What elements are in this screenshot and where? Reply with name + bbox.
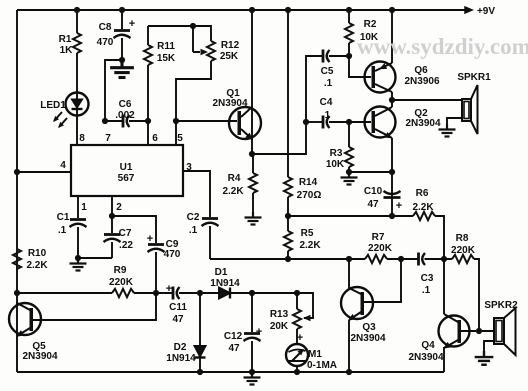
resistor R11	[144, 26, 152, 121]
svg-text:2.2K: 2.2K	[222, 186, 244, 197]
svg-text:C3: C3	[421, 273, 434, 284]
resistor R7	[365, 255, 387, 263]
junction D1 D2 node	[197, 290, 203, 296]
svg-text:567: 567	[118, 173, 135, 184]
wire to Q2 base	[349, 121, 371, 123]
svg-text:270Ω: 270Ω	[297, 190, 322, 201]
svg-text:SPKR1: SPKR1	[457, 72, 491, 83]
svg-text:R7: R7	[372, 232, 385, 243]
junction R14 rail	[285, 7, 291, 13]
svg-text:220K: 220K	[451, 245, 476, 256]
svg-text:.1: .1	[189, 225, 198, 236]
wire speaker1 feed	[392, 99, 462, 101]
svg-text:2: 2	[116, 202, 122, 213]
capacitor C3	[419, 253, 426, 266]
ground under R3	[341, 172, 358, 185]
ground under C12	[244, 372, 261, 385]
svg-text:LED1: LED1	[40, 100, 66, 111]
svg-text:+: +	[256, 326, 262, 338]
wire pin4	[17, 171, 71, 173]
speaker SPKR2	[494, 308, 516, 355]
wire pin2 to C9	[112, 216, 156, 243]
transistor Q3	[341, 287, 373, 323]
capacitor C5	[323, 50, 349, 63]
svg-text:Q3: Q3	[362, 322, 376, 333]
junction C12 rail	[249, 369, 255, 375]
wire Q3 emitter to rail	[348, 320, 350, 372]
capacitor C12	[244, 293, 261, 372]
svg-text:.1: .1	[324, 78, 333, 89]
svg-text:470: 470	[164, 249, 181, 260]
diode D2	[195, 293, 206, 372]
IC U1 567	[71, 145, 183, 196]
svg-text:C6: C6	[119, 99, 132, 110]
potentiometer R12	[176, 26, 215, 121]
wire Q6 emitter to rail	[391, 10, 393, 63]
svg-text:25K: 25K	[220, 51, 239, 62]
wire SPKR2 to ground	[484, 341, 494, 351]
capacitor C2	[202, 219, 219, 260]
svg-text:R6: R6	[416, 188, 429, 199]
wire Q4 base drop	[443, 259, 445, 314]
svg-text:R4: R4	[228, 173, 241, 184]
svg-text:C10: C10	[364, 186, 383, 197]
svg-text:C5: C5	[321, 66, 334, 77]
junction C5 R2 Q6 base	[346, 53, 352, 59]
ground under C8	[110, 60, 134, 78]
svg-text:+: +	[396, 200, 402, 212]
junction C9 bottom node	[153, 290, 159, 296]
wire R14 rail drop	[287, 10, 289, 177]
svg-text:1N914: 1N914	[210, 278, 240, 289]
svg-text:C1: C1	[57, 212, 70, 223]
junction D2 rail	[197, 369, 203, 375]
junction Q3 emitter rail	[346, 369, 352, 375]
junction D1 C12 node	[249, 290, 255, 296]
ground under SPKR1	[439, 124, 456, 137]
svg-text:2N3906: 2N3906	[404, 76, 439, 87]
svg-text:www.sydzdiy.com: www.sydzdiy.com	[357, 34, 528, 59]
junction Q2 emitter C10	[389, 169, 395, 175]
junction pin6 node	[145, 118, 151, 124]
node +9V arrow	[464, 6, 474, 14]
svg-text:2.2K: 2.2K	[26, 260, 48, 271]
capacitor C1	[70, 220, 87, 259]
resistor R3	[345, 122, 353, 172]
svg-text:2N3904: 2N3904	[405, 118, 440, 129]
svg-text:R11: R11	[157, 41, 175, 52]
rheostat R13	[293, 293, 301, 344]
junction C4 left node	[303, 119, 309, 125]
wire LED to pin 8	[76, 116, 78, 145]
diode D1	[219, 288, 230, 299]
speaker SPKR1	[462, 85, 478, 134]
rheostat R13 wiper arrow	[303, 315, 311, 321]
svg-text:8: 8	[79, 133, 85, 144]
wire Q4 emitter to rail	[443, 347, 445, 372]
svg-text:2.2K: 2.2K	[299, 240, 321, 251]
junction C10 bottom	[389, 213, 395, 219]
wire Q2 emitter down	[391, 138, 393, 216]
svg-text:10K: 10K	[326, 159, 345, 170]
LED1 emission arrows	[51, 112, 67, 130]
meter M1	[286, 344, 308, 372]
transistor Q4	[439, 314, 470, 351]
svg-text:Q4: Q4	[421, 340, 435, 351]
svg-text:R13: R13	[270, 309, 289, 320]
wire Q3 collector drop	[348, 259, 350, 288]
junction pin5 node	[173, 118, 179, 124]
svg-text:R5: R5	[301, 228, 314, 239]
resistor R10	[13, 249, 21, 269]
wire SPKR1 to ground	[447, 118, 462, 124]
ground under R4	[245, 212, 262, 225]
svg-text:47: 47	[367, 199, 379, 210]
wire +9V top rail	[17, 9, 466, 11]
svg-text:+: +	[297, 332, 303, 344]
svg-text:1K: 1K	[60, 45, 74, 56]
svg-text:+: +	[166, 283, 172, 295]
wire Q5 base	[33, 293, 156, 320]
wire bottom rail	[17, 371, 444, 373]
wire Q3 base from R7 right	[364, 259, 401, 302]
wire pin5	[175, 121, 177, 145]
junction R2 top rail	[346, 7, 352, 13]
resistor R4	[249, 154, 257, 212]
svg-text:2N3904: 2N3904	[350, 333, 385, 344]
svg-text:15K: 15K	[157, 53, 176, 64]
junction C1 bottom	[75, 255, 81, 261]
svg-text:2N3904: 2N3904	[212, 98, 247, 109]
wire pin1	[77, 196, 79, 218]
capacitor C4	[306, 116, 349, 129]
svg-text:.22: .22	[119, 240, 133, 251]
svg-text:D2: D2	[174, 342, 187, 353]
wire left rail	[16, 10, 18, 372]
svg-text:C7: C7	[119, 228, 132, 239]
wire Q4 collector to SPKR2	[461, 330, 494, 332]
svg-text:+9V: +9V	[477, 6, 495, 17]
svg-text:47: 47	[228, 343, 240, 354]
resistor R2	[345, 10, 353, 56]
wire to Q6 base	[349, 56, 371, 77]
junction Q6 rail	[389, 7, 395, 13]
wire node to Q1 base	[176, 120, 237, 122]
resistor R8	[452, 255, 474, 263]
svg-text:.1: .1	[322, 110, 331, 121]
capacitor C9	[148, 245, 165, 294]
junction R8 SPKR2	[476, 328, 482, 334]
junction R13 top node	[294, 290, 300, 296]
svg-text:2.2K: 2.2K	[412, 202, 434, 213]
svg-text:.1: .1	[422, 285, 431, 296]
wire pin6	[147, 121, 149, 145]
svg-text:.1: .1	[58, 225, 67, 236]
capacitor C8	[114, 10, 131, 60]
svg-text:1: 1	[81, 202, 87, 213]
junction C8 bottom	[119, 57, 125, 63]
wire Q6 collector to output node	[391, 92, 393, 100]
junction pin2 node	[109, 213, 115, 219]
junction output node	[389, 97, 395, 103]
svg-text:5: 5	[177, 133, 183, 144]
capacitor C11	[173, 287, 180, 300]
svg-text:SPKR2: SPKR2	[484, 300, 518, 311]
resistor R14	[284, 177, 292, 216]
wire Q2 collector to output node	[391, 100, 393, 107]
svg-text:R14: R14	[299, 177, 318, 188]
svg-text:20K: 20K	[270, 321, 289, 332]
wire C1 to C7	[78, 257, 112, 259]
transistor Q6	[365, 62, 396, 93]
wire Q1 emitter to C5/C4 column	[252, 56, 322, 154]
capacitor C10	[384, 191, 401, 198]
svg-text:2N3904: 2N3904	[22, 351, 57, 362]
wire pin2	[111, 196, 113, 216]
wire 259 signal line	[210, 259, 479, 331]
transistor Q1	[229, 10, 261, 154]
junction Q1 collector rail	[249, 7, 255, 13]
svg-text:1N914: 1N914	[166, 353, 196, 364]
svg-text:7: 7	[105, 133, 111, 144]
svg-text:470: 470	[97, 37, 114, 48]
svg-text:R9: R9	[114, 265, 127, 276]
svg-text:R10: R10	[28, 248, 47, 259]
wire 216 line	[288, 216, 444, 259]
wire C8 to pin7 column	[105, 60, 122, 121]
svg-text:R8: R8	[456, 233, 469, 244]
wire R11 top to R12 top	[148, 26, 211, 41]
svg-text:C8: C8	[99, 22, 112, 33]
svg-text:D1: D1	[215, 267, 228, 278]
svg-text:+: +	[147, 233, 153, 245]
junction top rail C8	[119, 7, 125, 13]
transistor Q5	[9, 303, 41, 339]
svg-text:C12: C12	[224, 331, 243, 342]
junction R5 bottom	[285, 256, 291, 262]
svg-text:U1: U1	[120, 162, 133, 173]
svg-text:4: 4	[60, 160, 66, 171]
svg-text:C11: C11	[169, 302, 187, 313]
junction R7 right C3	[398, 256, 404, 262]
svg-text:R1: R1	[59, 34, 72, 45]
transistor Q2	[365, 107, 396, 142]
svg-text:C2: C2	[187, 212, 200, 223]
resistor R5	[284, 216, 292, 259]
junction Q1 emitter node	[249, 151, 255, 157]
svg-text:C4: C4	[320, 97, 333, 108]
junction 293 line left rail	[14, 290, 20, 296]
svg-text:R3: R3	[330, 148, 343, 159]
svg-text:47: 47	[172, 314, 184, 325]
svg-text:R2: R2	[364, 19, 377, 30]
svg-text:2N3904: 2N3904	[408, 352, 443, 363]
svg-text:+: +	[129, 18, 135, 30]
junction C4 R3 Q2 base	[346, 119, 352, 125]
ground under SPKR2	[475, 351, 494, 365]
junction C3 R8 R6 node	[441, 256, 447, 262]
svg-text:.002: .002	[115, 110, 135, 121]
ground under C1	[70, 258, 87, 271]
svg-text:M1: M1	[308, 349, 322, 360]
resistor R9	[112, 289, 134, 297]
junction pin7 node	[102, 118, 108, 124]
capacitor C6	[105, 115, 148, 128]
junction R3 bottom	[346, 169, 352, 175]
junction pin4 left rail	[14, 169, 20, 175]
svg-text:R12: R12	[221, 40, 240, 51]
wire R3 to Q2 emitter	[349, 171, 392, 173]
resistor R1	[73, 10, 81, 92]
svg-text:6: 6	[152, 133, 158, 144]
svg-text:220K: 220K	[109, 277, 134, 288]
LED1	[66, 92, 89, 116]
svg-text:Q6: Q6	[414, 65, 428, 76]
junction M1 rail	[294, 369, 300, 375]
svg-text:0-1MA: 0-1MA	[307, 360, 337, 371]
wire pin3	[183, 171, 210, 217]
capacitor C7	[104, 216, 121, 258]
resistor R6	[413, 212, 435, 220]
svg-text:3: 3	[186, 162, 192, 173]
wire 293 line	[17, 293, 313, 318]
junction R14 R5 node	[285, 213, 291, 219]
junction R7 left	[346, 256, 352, 262]
junction top rail R1	[74, 7, 80, 13]
svg-text:220K: 220K	[368, 243, 393, 254]
junction R12 wiper top	[190, 23, 196, 29]
